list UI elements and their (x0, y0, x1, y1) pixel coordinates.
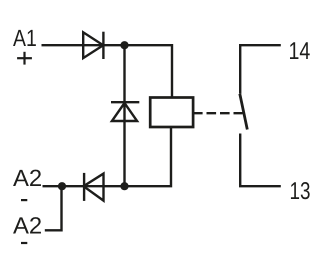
wire lower A2 terminal up to node J3 (45, 186, 62, 230)
mechanical link coil to contact (dashed) (193, 112, 243, 114)
wire A2 terminal to node J2 (43, 185, 125, 187)
svg-text:A2: A2 (13, 165, 42, 191)
node J2 (junction dot under coil branch) (120, 182, 128, 190)
node J1 (junction dot A1 line) (120, 41, 128, 49)
wire node J1 down to node J2 (123, 45, 125, 186)
polarity mark + (A1) (17, 52, 32, 65)
svg-text:14: 14 (289, 38, 311, 65)
wire coil bottom to A2 rail (125, 127, 172, 186)
relay coil K1 (150, 98, 193, 128)
node J3 (junction dot A2 line) (58, 182, 66, 190)
wire A1 terminal to coil-top corner (42, 45, 173, 97)
wire contact to terminal 13 (bottom) (240, 134, 281, 187)
polarity mark - (upper A2) (21, 199, 27, 201)
svg-text:13: 13 (290, 178, 311, 205)
svg-text:A2: A2 (13, 213, 42, 239)
wire terminal 14 to contact (top) (240, 45, 281, 94)
svg-text:A1: A1 (13, 25, 37, 51)
polarity mark - (lower A2) (21, 242, 27, 244)
diode D2 (freewheeling diode across coil) (111, 102, 139, 121)
diode D1 (series diode in A1 line) (83, 32, 103, 59)
relay contact blade (NO make contact) (240, 94, 248, 130)
diode D3 (series diode in A2 line, cathode left) (84, 173, 104, 201)
